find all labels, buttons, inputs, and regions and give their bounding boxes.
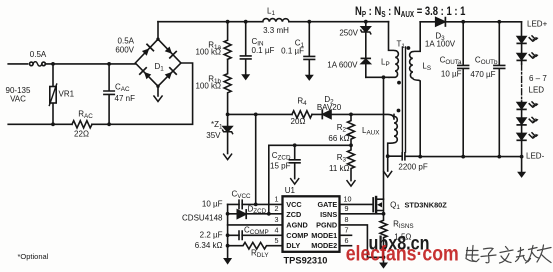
svg-text:11 kΩ: 11 kΩ [329,164,350,173]
node rail/CIN [244,20,248,24]
wire AC top [8,63,135,65]
pin 7 stub MODE1 [340,234,352,236]
pin 3 wire AGND [228,224,283,226]
node pin2/ZCD riser [267,212,271,216]
left AGND rail [227,204,229,258]
svg-text:DLY: DLY [286,241,300,250]
zener 250V snubber [365,22,367,27]
svg-text:R3: R3 [337,153,347,164]
node VCC/R1b [226,113,230,117]
node rail/COUTa bottom [461,155,465,159]
svg-text:T1: T1 [397,39,406,50]
node rail/Ls bottom [418,155,422,159]
svg-text:3: 3 [275,215,279,224]
Ls phase dot [407,46,411,50]
svg-text:8: 8 [345,215,349,224]
svg-text:5: 5 [275,236,279,245]
node top-AC/VR1 [51,62,55,66]
IC U1 TPS92310 box [283,196,340,252]
svg-text:4: 4 [275,226,279,235]
svg-text:R2: R2 [337,123,347,134]
transformer core [402,47,405,152]
svg-text:U1: U1 [285,186,296,195]
LED 5 [517,133,526,139]
svg-text:2: 2 [275,204,279,213]
svg-text:9: 9 [345,204,349,213]
LED 4 [517,118,526,124]
svg-text:RDLY: RDLY [251,249,269,260]
wire VCC row [228,114,394,119]
LED string [521,22,523,37]
node rail/COUTb bottom [497,155,501,159]
node bottom-AC/VR1 [51,122,55,126]
wire ZCD row [269,145,351,214]
capacitor COUTa 10uF [458,22,469,157]
transformer secondary Ls [410,22,421,157]
svg-text:CDSU4148: CDSU4148 [182,214,223,223]
svg-text:ISNS: ISNS [320,210,337,219]
wire Lp bottom row [366,76,389,78]
svg-text:COUTb: COUTb [475,56,498,66]
pin 1 wire VCC [228,203,283,205]
wire VCC riser to pin1 [255,114,257,204]
node bottom-AC/CAC [107,122,111,126]
svg-text:BAV20: BAV20 [317,103,342,112]
node VCC/CVCC riser [254,113,258,117]
varistor VR1 [52,64,54,124]
ground arrow AGND [223,258,232,265]
svg-text:COMP: COMP [286,231,308,240]
node top-AC/CAC [107,62,111,66]
node top rail/COUTa [461,20,465,24]
svg-text:R4: R4 [297,97,307,108]
node drain/Lp [382,75,386,79]
svg-text:3.3 mH: 3.3 mH [263,26,289,35]
svg-text:2200 pF: 2200 pF [398,163,427,172]
svg-text:PGND: PGND [316,221,337,230]
node rail/LED bottom [520,155,524,159]
pin 9 wire ISNS [340,213,384,215]
fuse F1 0.5A [30,62,34,66]
IC pin names [284,200,338,266]
svg-text:ZCD: ZCD [286,210,301,219]
svg-text:10: 10 [344,195,352,204]
svg-text:20Ω: 20Ω [291,117,306,126]
svg-text:0.5A: 0.5A [118,37,135,46]
capacitor CIN 0.1uF [240,22,251,75]
resistor R3 11k [348,145,355,180]
svg-text:22Ω: 22Ω [74,130,89,139]
resistor R4 20ohm [292,111,312,118]
svg-text:D1: D1 [155,62,165,73]
svg-text:1A 600V: 1A 600V [327,60,358,69]
resistor RAC 22ohm [72,121,92,128]
pin 5 wire DLY + resistor RDLY [228,242,283,249]
capacitor CAC 47nF [104,64,114,124]
watermark elecfans.com [346,242,459,266]
LED 1 [517,37,526,43]
svg-text:1: 1 [275,195,279,204]
svg-text:100 kΩ: 100 kΩ [195,48,221,57]
pin 2 wire ZCD [228,213,283,215]
svg-text:66 kΩ: 66 kΩ [328,134,349,143]
ground arrow LED- [521,157,523,173]
node aux ground [386,154,390,158]
svg-text:LP: LP [381,58,390,69]
svg-text:0.1 µF: 0.1 µF [281,47,304,56]
dash-dot LED continuation [521,64,523,101]
svg-text:LAUX: LAUX [362,126,380,137]
node bridge bottom vertex [156,85,159,88]
node rail/C1 [307,20,311,24]
transformer aux winding Laux [388,114,398,156]
diode 1A 600V snubber [361,57,370,59]
svg-text:15 pF: 15 pF [270,162,291,171]
svg-text:10 µF: 10 µF [202,200,223,209]
svg-text:600V: 600V [115,46,134,55]
resistor R1b 100k [224,60,231,115]
svg-text:0.1 µF: 0.1 µF [252,46,275,55]
svg-text:100 kΩ: 100 kΩ [195,82,221,91]
svg-text:LS: LS [422,62,431,73]
svg-text:NP : NS : NAUX = 3.8 : 1 : 1: NP : NS : NAUX = 3.8 : 1 : 1 [355,5,465,19]
svg-text:GATE: GATE [317,200,337,209]
svg-text:CZCD: CZCD [272,151,291,162]
pin 6 stub MODE2 [340,245,352,247]
MOSFET Q1 STD3NK80Z [372,198,374,212]
wire DC top rail [158,21,389,23]
svg-text:470 µF: 470 µF [470,70,495,79]
transformer T1 primary Lp [389,22,399,78]
wire drain [383,77,385,199]
node VCC/R2 [349,113,353,117]
svg-text:6 – 7: 6 – 7 [529,74,547,83]
watermark ubx8.cn [369,232,430,254]
ground arrow PGND [383,257,385,263]
svg-text:L1: L1 [267,7,275,18]
capacitor CZCD 15pF [289,145,300,178]
diode D3 1A100V [436,18,445,26]
svg-text:MODE2: MODE2 [311,241,337,250]
svg-text:10 µF: 10 µF [441,70,462,79]
diode DZCD CDSU4148 [237,210,246,218]
capacitor CCOMP 2.2uF [239,231,242,239]
capacitor COUTb 470uF [494,22,505,157]
pin 10 wire GATE [340,203,373,205]
svg-text:VR1: VR1 [59,90,75,99]
svg-text:6.34 kΩ: 6.34 kΩ [195,241,223,250]
diode D2 BAV20 [323,110,331,118]
node ZCD/R2R3 [349,143,353,147]
svg-text:VAC: VAC [10,95,26,104]
svg-text:AGND: AGND [286,221,308,230]
resistor R1a 100k [224,22,231,60]
ground arrow aux [387,156,389,171]
svg-text:STD3NK80Z: STD3NK80Z [405,201,448,210]
LED 2 [517,54,526,60]
node rail/snubber [364,20,368,24]
svg-text:VCC: VCC [286,200,302,209]
node pin1/riser [254,203,258,207]
inductor L1 3.3mH [263,19,289,22]
svg-text:*Optional: *Optional [18,252,49,261]
LED 3 [517,103,526,109]
resistor R2 66k [348,114,355,145]
svg-text:TPS92310: TPS92310 [284,255,328,265]
node rail/R1a [226,20,230,24]
wire AC bottom [8,63,192,124]
node bridge top vertex [156,38,159,41]
svg-text:CCOMP: CCOMP [244,225,269,236]
pin 4 wire COMP [228,234,283,236]
svg-text:35V: 35V [206,131,221,140]
bridge rectifier D1 [135,39,181,86]
svg-text:250V: 250V [339,29,358,38]
wire secondary bottom rail [420,156,521,158]
svg-text:Q1: Q1 [390,201,400,212]
svg-text:*Z1: *Z1 [211,120,223,131]
Laux phase dot [397,109,401,113]
node top rail/COUTb [497,20,501,24]
wire secondary top rail [420,21,521,23]
node ZCD/CZCD [293,143,297,147]
svg-text:LED: LED [529,86,545,95]
svg-text:RISNS: RISNS [393,220,413,231]
svg-text:0.5A: 0.5A [30,50,47,59]
svg-text:2.2 µF: 2.2 µF [200,230,223,239]
svg-text:CAC: CAC [115,83,130,94]
watermark chinese characters [466,245,551,263]
capacitor CVCC 10uF [239,200,242,208]
svg-text:LED-: LED- [526,152,545,161]
svg-text:RAC: RAC [78,110,93,121]
ground arrow below bridge [157,86,159,96]
capacitor 2200pF [388,153,421,160]
zener Z1 35V [227,114,229,126]
resistor RISNS 1.5ohm [380,214,387,257]
Lp phase dot [397,81,401,85]
label turns ratio NP:NS:NAUX = 3.8:1:1 [355,5,465,19]
svg-text:MODE1: MODE1 [311,231,337,240]
pin 8 wire PGND [340,225,384,257]
svg-text:elecfans·com: elecfans·com [346,242,459,266]
capacitor C1 0.1uF [304,22,315,76]
svg-text:LED+: LED+ [527,19,548,28]
svg-text:1A 100V: 1A 100V [425,40,456,49]
svg-text:DZCD: DZCD [248,205,267,216]
svg-text:47 nF: 47 nF [115,94,136,103]
svg-text:COUTa: COUTa [440,56,462,66]
svg-text:7: 7 [345,226,349,235]
svg-text:CVCC: CVCC [232,190,252,201]
IC pin numbers [275,195,352,245]
